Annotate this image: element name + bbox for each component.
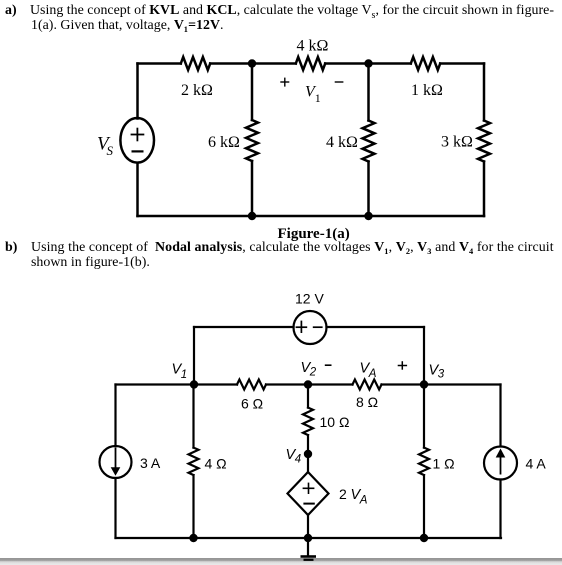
arrowhead 3A downward — [111, 467, 121, 476]
node dot V3 — [420, 380, 428, 388]
wire mid rail above 6k — [251, 64, 254, 121]
svg-text:A: A — [359, 495, 368, 507]
current source 4A circle — [484, 447, 517, 480]
node dot V2 — [304, 380, 312, 388]
minus sign above 8ohm — [325, 364, 332, 366]
wire top-left segment — [138, 62, 181, 65]
wire right rail below 4A — [499, 480, 501, 539]
wire top-right segment — [440, 62, 484, 65]
wire top right of 12V source — [327, 326, 425, 328]
plus sign inside Vs — [131, 134, 145, 136]
wire 1ohm rail below — [423, 475, 425, 538]
svg-text:S: S — [107, 143, 114, 158]
current source 3A circle — [100, 446, 132, 478]
wire top between 4k and node2 — [325, 62, 411, 65]
svg-text:6 Ω: 6 Ω — [241, 396, 263, 412]
wire left rail below 3A — [114, 478, 116, 538]
voltage source 12V circle — [294, 311, 327, 344]
wire 4ohm rail below — [192, 475, 194, 538]
wire 10ohm to V4 node — [307, 435, 309, 472]
resistor 1k horizontal — [411, 57, 440, 70]
wire left rail below source — [136, 163, 139, 216]
wire right rail above 3k — [483, 64, 486, 121]
arrow shaft 4A — [500, 457, 502, 475]
minus sign inside 12V — [313, 326, 323, 328]
node dot V1 — [190, 380, 198, 388]
svg-text:6 kΩ: 6 kΩ — [208, 134, 240, 151]
svg-text:1 Ω: 1 Ω — [433, 456, 455, 472]
node dot bottom at 4k rail — [364, 212, 372, 220]
wire diamond to bottom rail — [307, 515, 309, 538]
svg-text:A: A — [368, 368, 377, 380]
wire bottom rail of 1a — [138, 215, 485, 218]
svg-text:2: 2 — [309, 367, 317, 379]
svg-text:4 kΩ: 4 kΩ — [297, 38, 329, 55]
svg-text:4: 4 — [295, 454, 301, 466]
problem statement a) line 1 — [5, 3, 17, 19]
page bottom edge gray band — [0, 558, 562, 565]
wire top left of 12V source — [194, 326, 294, 328]
ground bar 1 — [301, 555, 317, 558]
wire right rail below 3k — [483, 162, 486, 217]
svg-text:4 A: 4 A — [526, 456, 547, 472]
node dot bottom ground — [304, 534, 312, 542]
wire mid rail below 6k — [251, 161, 254, 216]
problem statement b) line 1 — [5, 240, 17, 256]
resistor 6k vertical — [246, 120, 258, 161]
wire bus between 8ohm and V3 — [382, 383, 501, 385]
ground stub — [307, 538, 309, 556]
wire main bus left of V1 — [116, 383, 238, 385]
arrowhead 4A upward — [496, 449, 506, 458]
wire top between 2k and node1 — [210, 62, 296, 65]
svg-text:2 kΩ: 2 kΩ — [181, 82, 213, 99]
svg-text:12 V: 12 V — [295, 291, 324, 307]
svg-text:1: 1 — [181, 369, 187, 381]
svg-text:8 Ω: 8 Ω — [356, 394, 378, 410]
plus sign inside 12V — [296, 326, 308, 328]
minus sign inside diamond — [303, 503, 314, 505]
wire 1ohm rail above — [423, 385, 425, 448]
node dot V4 — [304, 450, 312, 458]
wire bus between 6ohm and V2 — [266, 383, 353, 385]
wire 10ohm stub from V2 — [307, 385, 309, 408]
resistor 8ohm horizontal — [353, 380, 382, 390]
svg-text:3: 3 — [438, 369, 445, 381]
svg-text:2: 2 — [339, 486, 347, 502]
svg-text:4 Ω: 4 Ω — [205, 456, 227, 472]
svg-text:3 kΩ: 3 kΩ — [441, 134, 473, 151]
wire right rail above 4A — [499, 385, 501, 447]
ground bar 2 — [304, 559, 314, 561]
resistor 4ohm vertical — [189, 448, 199, 476]
resistor 1ohm vertical — [419, 448, 429, 476]
voltage source Vs ellipse — [120, 118, 154, 163]
node dot top at 4k rail — [364, 59, 372, 67]
plus sign above 8ohm — [398, 365, 407, 367]
resistor 4k vertical — [363, 121, 375, 162]
svg-text:3 A: 3 A — [140, 455, 161, 471]
minus sign inside Vs — [132, 150, 144, 152]
wire bottom rail of 1b — [116, 537, 502, 539]
problem statement a) line 2 — [31, 18, 224, 34]
svg-text:10 Ω: 10 Ω — [320, 414, 350, 430]
arrow shaft 3A — [115, 448, 117, 470]
resistor 10ohm vertical — [303, 408, 313, 436]
svg-text:4 kΩ: 4 kΩ — [326, 134, 358, 151]
problem statement b) line 2 — [31, 255, 150, 271]
dependent source 2VA diamond — [288, 472, 329, 515]
wire rail below 4k vertical — [367, 162, 370, 217]
wire top loop right vertical — [423, 327, 425, 385]
wire left rail above source — [136, 64, 139, 119]
node dot bottom 4ohm — [189, 534, 197, 542]
wire 4ohm rail above — [192, 385, 194, 448]
svg-text:1: 1 — [315, 91, 321, 105]
svg-text:1 kΩ: 1 kΩ — [411, 82, 443, 99]
node dot bottom 1ohm — [420, 534, 428, 542]
wire rail above 4k vertical — [367, 64, 370, 121]
plus sign inside diamond — [303, 487, 315, 489]
wire top loop left vertical — [193, 327, 195, 385]
resistor 6ohm horizontal — [237, 380, 266, 390]
plus sign of V1 polarity — [280, 81, 289, 83]
minus sign of V1 polarity — [335, 81, 344, 83]
svg-text:Figure-1(a): Figure-1(a) — [278, 226, 350, 242]
resistor 4k top horizontal — [296, 57, 325, 70]
node dot top at 6k rail — [248, 59, 256, 67]
resistor 3k vertical — [478, 121, 490, 162]
wire left rail above 3A — [114, 385, 116, 447]
resistor 2k horizontal — [181, 57, 210, 70]
node dot bottom at 6k rail — [248, 212, 256, 220]
